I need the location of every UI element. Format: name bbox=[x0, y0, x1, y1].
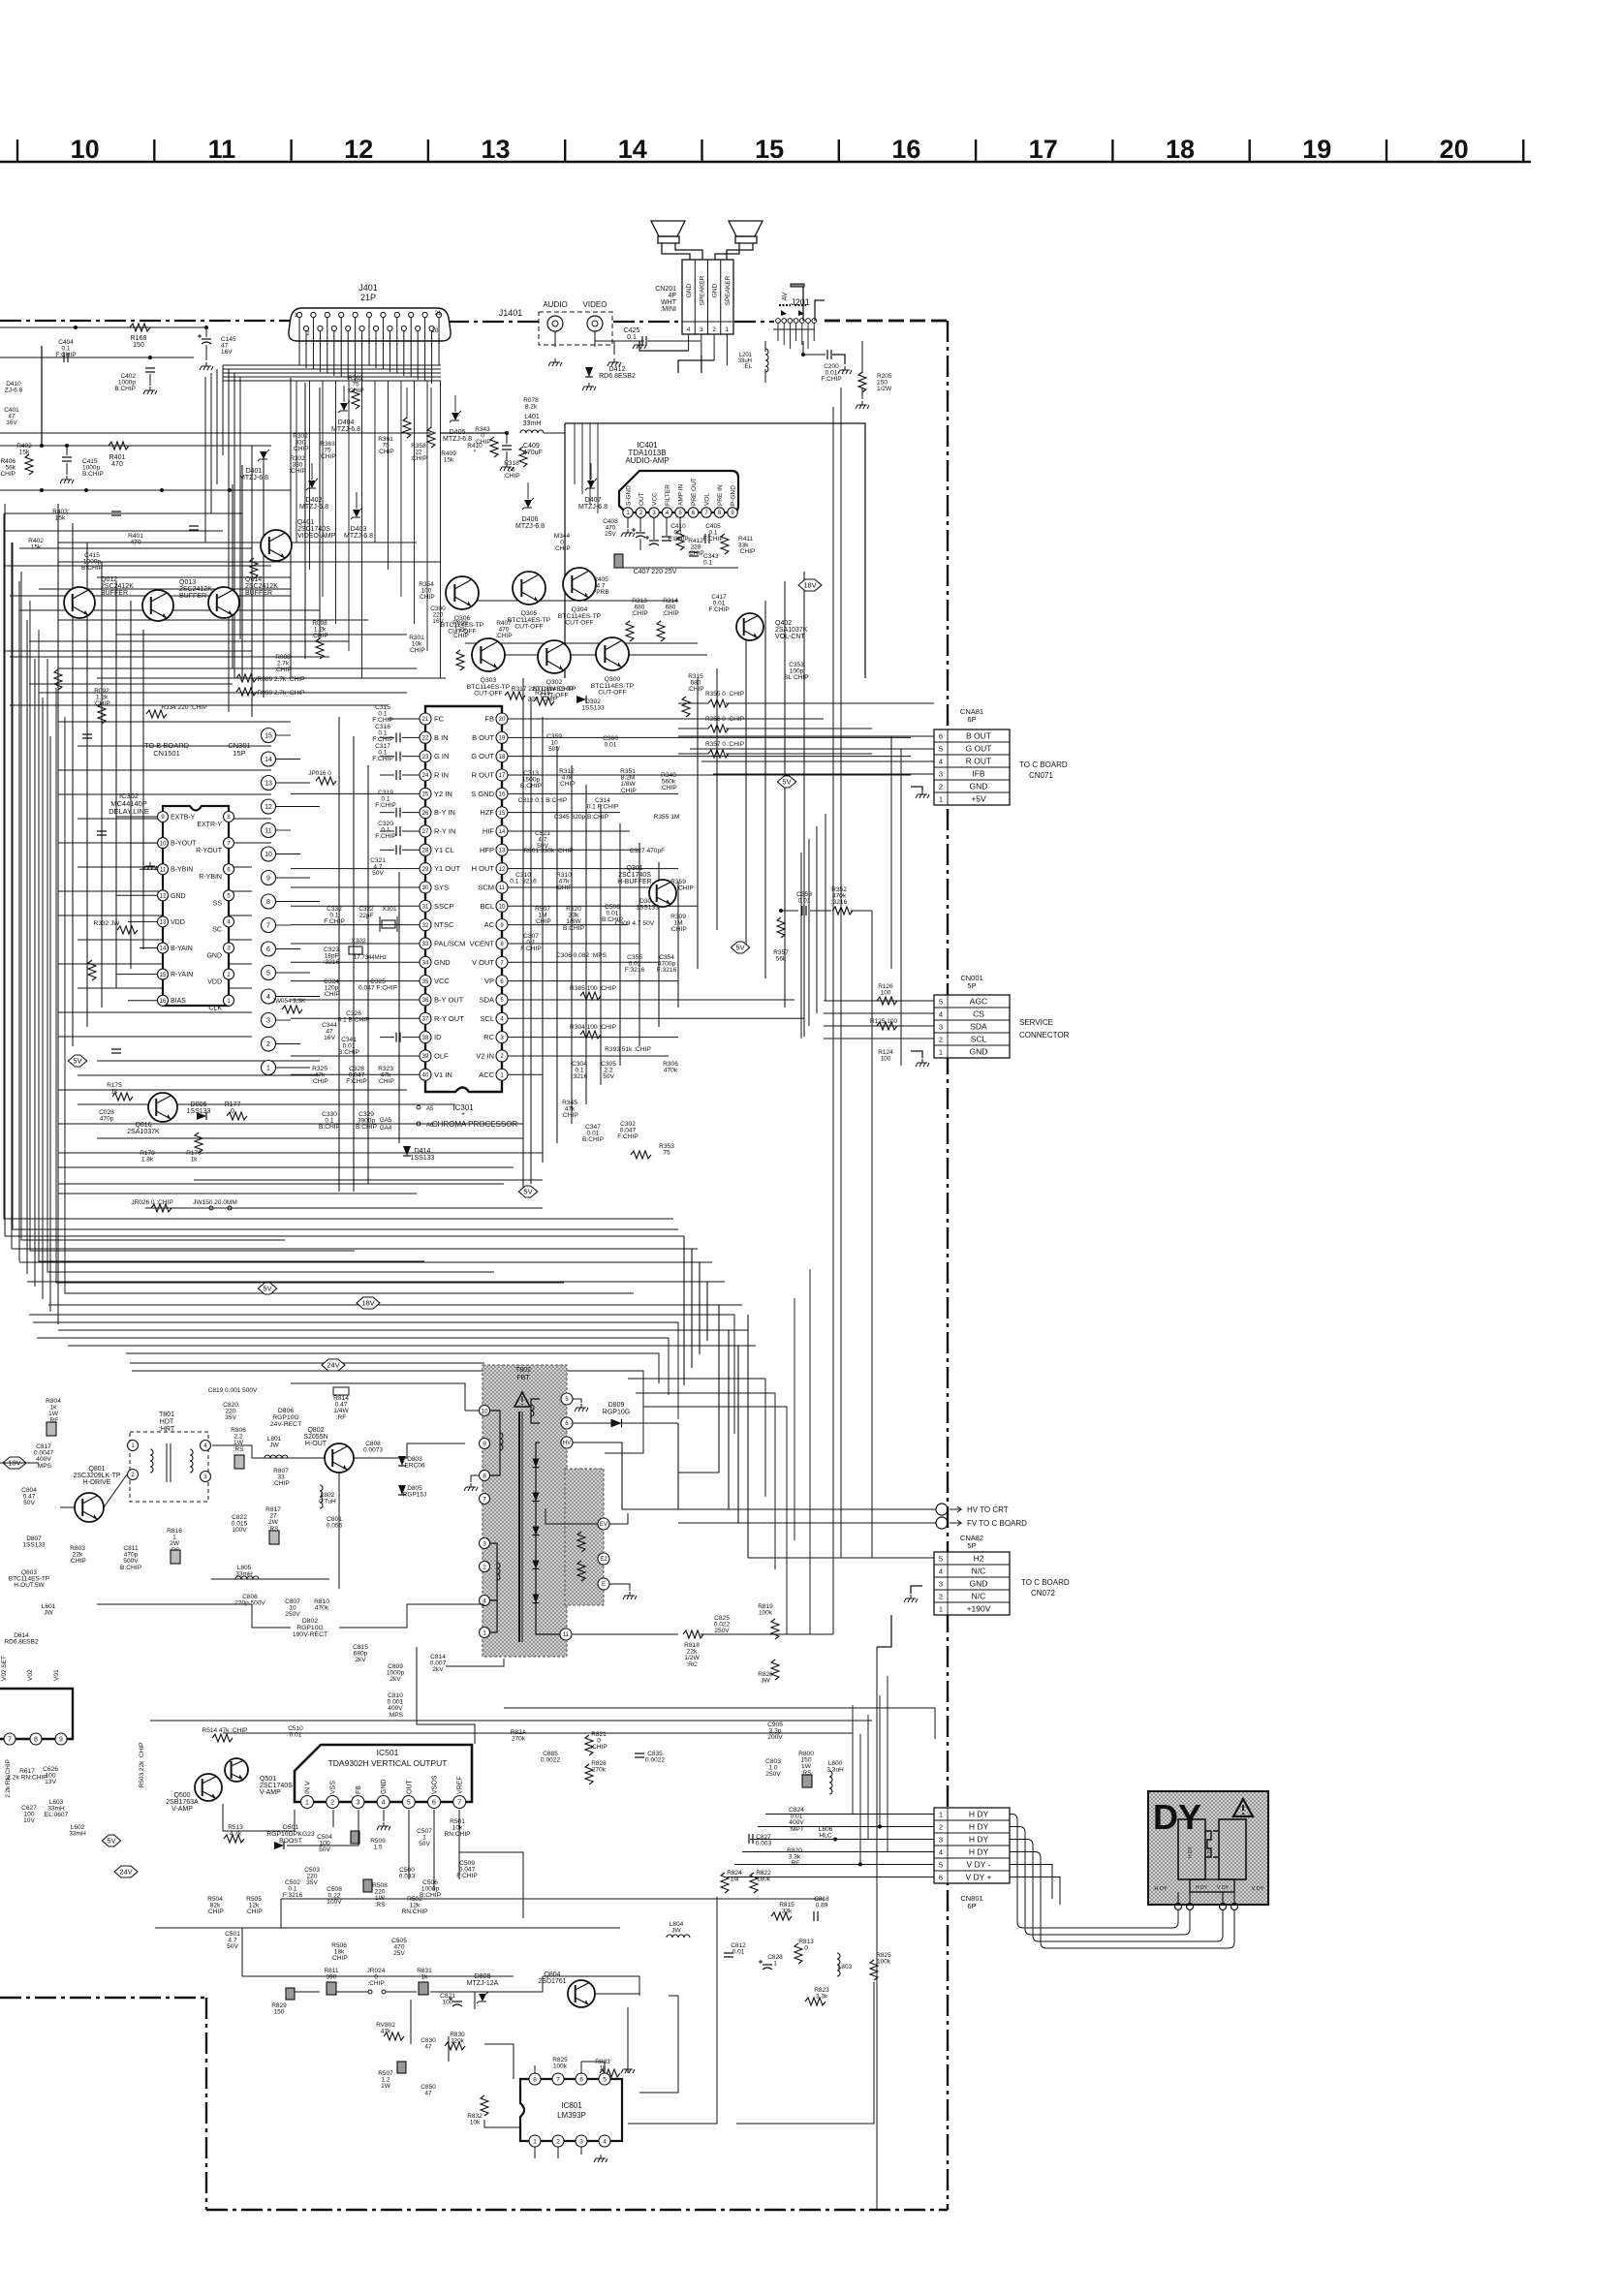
svg-text:14: 14 bbox=[265, 757, 272, 763]
transistor Q500 V-AMP bbox=[166, 1774, 222, 1813]
svg-text:2SC2412K: 2SC2412K bbox=[245, 583, 278, 590]
svg-text:18: 18 bbox=[1166, 135, 1195, 164]
svg-text:JW: JW bbox=[269, 1443, 279, 1449]
svg-text:RC: RC bbox=[483, 1033, 494, 1041]
svg-text:R393 51k :CHIP: R393 51k :CHIP bbox=[605, 1046, 651, 1053]
svg-text:G IN: G IN bbox=[434, 752, 449, 760]
svg-text::CHIP: :CHIP bbox=[311, 1078, 328, 1085]
transistor Q401 bbox=[261, 519, 336, 561]
svg-text:35V: 35V bbox=[225, 1414, 236, 1421]
svg-text:50V: 50V bbox=[319, 1846, 330, 1853]
wires IC301 right pin connections bbox=[508, 719, 911, 1074]
svg-text:VOL: VOL bbox=[704, 493, 711, 506]
transformer T802 flyback FBT bbox=[291, 1365, 637, 1657]
svg-text:AUDIO-AMP: AUDIO-AMP bbox=[625, 456, 669, 465]
svg-text:0.01: 0.01 bbox=[798, 898, 811, 905]
svg-text:33mH: 33mH bbox=[69, 1831, 86, 1838]
svg-text:100k: 100k bbox=[553, 2063, 568, 2070]
svg-text:R801 330k :CHIP: R801 330k :CHIP bbox=[523, 848, 574, 854]
deflection yoke DY block bbox=[1148, 1791, 1268, 1910]
svg-text:V DY: V DY bbox=[1252, 1886, 1264, 1892]
svg-text:6: 6 bbox=[266, 946, 270, 953]
svg-text:FILTER: FILTER bbox=[665, 484, 671, 506]
svg-text:R356 0 :CHIP: R356 0 :CHIP bbox=[705, 716, 744, 723]
parts top-left supply cluster bbox=[0, 324, 306, 492]
svg-text:9: 9 bbox=[266, 876, 270, 883]
svg-text:3: 3 bbox=[939, 1835, 943, 1844]
svg-text:16: 16 bbox=[891, 135, 920, 164]
svg-text:C322: C322 bbox=[358, 906, 374, 913]
svg-text:BIAS: BIAS bbox=[171, 998, 186, 1005]
svg-text:2SC1740S: 2SC1740S bbox=[618, 872, 651, 879]
board outline dash-dot top border bbox=[0, 321, 948, 322]
wires J401 fanout bbox=[205, 318, 441, 712]
svg-text:SDA: SDA bbox=[970, 1021, 987, 1031]
svg-text:IC801: IC801 bbox=[561, 2101, 582, 2110]
svg-text:0.033: 0.033 bbox=[399, 1874, 416, 1880]
svg-text:R304 100 :CHIP: R304 100 :CHIP bbox=[570, 1024, 617, 1031]
svg-text:0.047 F:CHIP: 0.047 F:CHIP bbox=[358, 985, 398, 992]
svg-text:D405: D405 bbox=[450, 429, 466, 436]
svg-text:G OUT: G OUT bbox=[471, 752, 494, 760]
svg-text::MPT: :MPT bbox=[789, 1826, 804, 1833]
svg-text:8: 8 bbox=[266, 899, 270, 906]
IC IC501 TDA9302H vertical output bbox=[295, 1745, 472, 1809]
svg-text::CHIP: :CHIP bbox=[323, 991, 340, 998]
svg-text:25V: 25V bbox=[605, 531, 616, 538]
parts bottom middle cluster bbox=[271, 1968, 620, 2126]
svg-text::CHIP: :CHIP bbox=[289, 468, 305, 475]
power tag 18V bbox=[798, 579, 822, 591]
svg-text:HV TO CRT: HV TO CRT bbox=[967, 1505, 1009, 1514]
svg-text:HV: HV bbox=[563, 1441, 571, 1446]
svg-text:1W: 1W bbox=[381, 2083, 391, 2090]
svg-text::CHIP: :CHIP bbox=[408, 647, 424, 654]
svg-text:34: 34 bbox=[422, 960, 429, 966]
svg-text:RGP15J: RGP15J bbox=[403, 1492, 427, 1499]
svg-text:11: 11 bbox=[160, 867, 167, 873]
svg-text:2: 2 bbox=[330, 1800, 334, 1807]
svg-text:24V-RECT: 24V-RECT bbox=[270, 1421, 301, 1428]
transistor Q303 BTC114ES-TP bbox=[467, 638, 511, 698]
svg-text:100: 100 bbox=[881, 1056, 891, 1063]
svg-text:B:CHIP: B:CHIP bbox=[563, 925, 585, 932]
svg-text:3: 3 bbox=[939, 1579, 943, 1588]
svg-text:SL:CHIP: SL:CHIP bbox=[784, 674, 808, 681]
svg-text:3: 3 bbox=[579, 2138, 583, 2145]
svg-text:11: 11 bbox=[265, 828, 271, 835]
svg-text:470k: 470k bbox=[315, 1605, 329, 1612]
transistor Q804 bbox=[538, 1971, 595, 2007]
svg-text:5: 5 bbox=[939, 997, 943, 1006]
svg-text:MTZJ-6.8: MTZJ-6.8 bbox=[344, 533, 373, 540]
svg-text:JW: JW bbox=[671, 1928, 681, 1935]
svg-text:TDA9302H VERTICAL OUTPUT: TDA9302H VERTICAL OUTPUT bbox=[328, 1758, 448, 1768]
svg-text:220p 500V: 220p 500V bbox=[234, 1600, 265, 1607]
svg-text:0.0022: 0.0022 bbox=[541, 1757, 560, 1764]
connector J401 21P bbox=[289, 283, 451, 341]
svg-text:VOL-CNT: VOL-CNT bbox=[775, 634, 805, 640]
transistor Q801 H-DRIVE bbox=[73, 1466, 120, 1522]
svg-text:AV: AV bbox=[782, 292, 789, 300]
svg-text:B:CHIP: B:CHIP bbox=[520, 783, 543, 790]
svg-text:100: 100 bbox=[881, 990, 891, 997]
svg-text:31: 31 bbox=[422, 904, 429, 910]
svg-text:B:CHIP: B:CHIP bbox=[338, 1049, 360, 1056]
svg-text:6: 6 bbox=[939, 731, 943, 740]
svg-text:C819 0.001 500V: C819 0.001 500V bbox=[208, 1387, 258, 1394]
svg-text:0.1 B:CHIP: 0.1 B:CHIP bbox=[338, 1017, 371, 1024]
svg-text:1: 1 bbox=[939, 794, 943, 803]
svg-text::CHIP: :CHIP bbox=[319, 453, 335, 460]
transistor Q306 BTC114ES-TP bbox=[441, 576, 484, 636]
svg-text:SPEAKER: SPEAKER bbox=[699, 275, 705, 305]
svg-text:C327 470pF: C327 470pF bbox=[630, 848, 665, 854]
svg-text:T801: T801 bbox=[159, 1412, 174, 1418]
svg-text:B-YAIN: B-YAIN bbox=[171, 946, 193, 952]
svg-text:12: 12 bbox=[344, 135, 373, 164]
svg-text:FB: FB bbox=[356, 1785, 362, 1794]
svg-text:BUFFER: BUFFER bbox=[245, 590, 272, 597]
svg-text::EL: :EL bbox=[743, 364, 753, 370]
svg-text:AGC: AGC bbox=[970, 996, 987, 1006]
svg-text:RN:CHIP: RN:CHIP bbox=[401, 1908, 428, 1915]
svg-text:F:CHIP: F:CHIP bbox=[821, 376, 841, 383]
svg-text:17: 17 bbox=[1029, 135, 1058, 164]
svg-text:H2: H2 bbox=[974, 1553, 984, 1563]
svg-text:25V: 25V bbox=[393, 1950, 405, 1957]
wire J401 drop verticals bbox=[296, 381, 441, 678]
svg-text:S-GND: S-GND bbox=[626, 485, 633, 506]
op-amp IC401 TDA1013B bbox=[619, 441, 738, 517]
svg-text:FV TO C BOARD: FV TO C BOARD bbox=[967, 1519, 1027, 1528]
svg-text::CHIP: :CHIP bbox=[377, 1078, 394, 1085]
node HV TO CRT bbox=[678, 1504, 1009, 1515]
svg-text::CHIP: :CHIP bbox=[553, 545, 570, 552]
svg-text:R334 220 :CHIP: R334 220 :CHIP bbox=[161, 704, 206, 711]
svg-text:4: 4 bbox=[266, 994, 270, 1001]
svg-text::RS: :RS bbox=[375, 1902, 387, 1908]
svg-text:L401: L401 bbox=[524, 414, 540, 420]
svg-text:V-AMP: V-AMP bbox=[171, 1806, 193, 1813]
svg-text::CHIP: :CHIP bbox=[555, 884, 573, 891]
svg-text::CHIP: :CHIP bbox=[292, 446, 308, 452]
svg-text:5V: 5V bbox=[523, 1188, 532, 1196]
svg-text:12: 12 bbox=[160, 893, 167, 899]
svg-text:CUT-OFF: CUT-OFF bbox=[448, 629, 476, 636]
svg-text:D403: D403 bbox=[351, 526, 367, 533]
svg-text:R-YBIN: R-YBIN bbox=[199, 874, 222, 881]
svg-text:CN201: CN201 bbox=[655, 286, 676, 293]
connector CN301 15P pin circles bbox=[144, 729, 320, 1075]
svg-text:VSS: VSS bbox=[330, 1781, 337, 1794]
transistor Q501 V-AMP bbox=[225, 1758, 293, 1796]
svg-text:HZF: HZF bbox=[480, 808, 494, 817]
svg-text:Q012: Q012 bbox=[101, 576, 117, 583]
svg-text:F:CHIP: F:CHIP bbox=[372, 756, 393, 762]
svg-text:100V: 100V bbox=[327, 1899, 342, 1906]
svg-text:RGP10GPKG23: RGP10GPKG23 bbox=[266, 1831, 315, 1838]
svg-text:5: 5 bbox=[266, 971, 270, 977]
svg-text:5: 5 bbox=[939, 744, 943, 753]
svg-text:RD6.8ESB2: RD6.8ESB2 bbox=[599, 373, 636, 380]
svg-text:15k: 15k bbox=[19, 450, 30, 456]
IC IC302 MC44140P delay line bbox=[109, 791, 234, 1012]
svg-text:1/2W: 1/2W bbox=[877, 386, 892, 392]
svg-text:+5V: +5V bbox=[971, 793, 986, 803]
transistor Q302 BTC114ES-TP bbox=[533, 640, 576, 699]
svg-text:17.7344MHz: 17.7344MHz bbox=[354, 955, 387, 961]
svg-text:16V: 16V bbox=[324, 1035, 335, 1041]
svg-text:2SC2412K: 2SC2412K bbox=[101, 583, 134, 590]
node FV TO C BOARD bbox=[678, 1517, 1027, 1529]
svg-text:11: 11 bbox=[499, 885, 506, 891]
svg-text:B:CHIP: B:CHIP bbox=[82, 471, 104, 478]
svg-text:SDA: SDA bbox=[480, 995, 494, 1004]
svg-text:BUFFER: BUFFER bbox=[179, 593, 206, 600]
svg-text:F:3216: F:3216 bbox=[657, 967, 677, 974]
svg-text:F:CHIP: F:CHIP bbox=[456, 1873, 478, 1879]
svg-text:15: 15 bbox=[160, 973, 167, 978]
svg-text:Q013: Q013 bbox=[179, 579, 196, 586]
transistor Q301 H-BUFFER bbox=[617, 865, 676, 907]
svg-text:470: 470 bbox=[130, 540, 140, 546]
parts chroma left cluster bbox=[272, 704, 435, 1162]
svg-text:JW054 3.3K: JW054 3.3K bbox=[272, 998, 306, 1005]
svg-text:H-OUT.5W: H-OUT.5W bbox=[14, 1582, 45, 1589]
svg-text:PRE IN: PRE IN bbox=[717, 484, 724, 506]
svg-text::CHIP: :CHIP bbox=[558, 781, 576, 788]
svg-text:11: 11 bbox=[208, 135, 236, 164]
svg-text:B:CHIP: B:CHIP bbox=[81, 565, 104, 572]
svg-text::3216: :3216 bbox=[572, 1073, 588, 1080]
svg-text:14: 14 bbox=[499, 829, 506, 835]
svg-text:R-YOUT: R-YOUT bbox=[196, 848, 223, 854]
svg-text:GND: GND bbox=[171, 893, 186, 900]
svg-text:3.3k: 3.3k bbox=[816, 1994, 828, 2001]
svg-text:B-Y IN: B-Y IN bbox=[434, 808, 455, 817]
svg-text:Q401: Q401 bbox=[297, 519, 314, 526]
svg-text::CHIP: :CHIP bbox=[330, 1955, 348, 1962]
svg-text::MPS: :MPS bbox=[388, 1712, 404, 1719]
svg-text:35: 35 bbox=[422, 979, 429, 985]
svg-text::CHIP: :CHIP bbox=[631, 610, 647, 617]
svg-text::CHIP: :CHIP bbox=[206, 1908, 224, 1915]
svg-text:BUFFER: BUFFER bbox=[101, 590, 128, 597]
svg-text:5V: 5V bbox=[73, 1057, 81, 1066]
svg-text:CUT-OFF: CUT-OFF bbox=[565, 620, 593, 627]
svg-text:IFB: IFB bbox=[972, 768, 985, 778]
parts top band extra components bbox=[28, 509, 258, 1053]
svg-text::CHIP: :CHIP bbox=[662, 610, 678, 617]
wire chroma mesh verticals bbox=[58, 378, 804, 1192]
svg-text:4.7k: 4.7k bbox=[230, 1831, 242, 1838]
svg-text:B:CHIP: B:CHIP bbox=[356, 1124, 378, 1131]
svg-text:1k: 1k bbox=[191, 1157, 199, 1164]
svg-text:5: 5 bbox=[407, 1800, 411, 1807]
svg-text:HLC: HLC bbox=[819, 1833, 831, 1840]
svg-text:14: 14 bbox=[618, 135, 647, 164]
svg-text:7: 7 bbox=[457, 1800, 461, 1807]
svg-text:0: 0 bbox=[804, 1945, 808, 1952]
svg-text:0: 0 bbox=[231, 1108, 234, 1115]
svg-text:2: 2 bbox=[266, 1041, 270, 1048]
connector CNA81 6P bbox=[934, 707, 1068, 805]
svg-text:GND: GND bbox=[970, 1046, 988, 1056]
transformer T801 HDT bbox=[128, 1412, 211, 1502]
svg-text:2: 2 bbox=[939, 1035, 943, 1043]
svg-text:C312 0.1 B:CHIP: C312 0.1 B:CHIP bbox=[518, 797, 568, 804]
svg-text:VCC: VCC bbox=[652, 492, 659, 506]
svg-text:50V: 50V bbox=[372, 870, 384, 877]
svg-text:B:CHIP: B:CHIP bbox=[114, 386, 136, 392]
svg-text:B:CHIP: B:CHIP bbox=[120, 1565, 142, 1571]
svg-text:10: 10 bbox=[160, 841, 167, 847]
wire right-side vertical bundle bbox=[678, 1236, 936, 1558]
svg-text:2SC2412K: 2SC2412K bbox=[179, 586, 212, 593]
transistor Q305 BTC114ES-TP bbox=[508, 572, 551, 631]
svg-text:Q301: Q301 bbox=[626, 865, 642, 872]
svg-text:HFP: HFP bbox=[480, 846, 494, 854]
svg-text:RGP10G: RGP10G bbox=[296, 1625, 324, 1631]
svg-text:11: 11 bbox=[563, 1632, 570, 1638]
svg-text:V-AMP: V-AMP bbox=[260, 1789, 281, 1796]
svg-text:VIDEO: VIDEO bbox=[583, 300, 607, 309]
svg-text:R OUT: R OUT bbox=[966, 756, 991, 765]
svg-text:H-BUFFER: H-BUFFER bbox=[617, 879, 651, 885]
svg-text:IN V: IN V bbox=[305, 1781, 312, 1794]
svg-text:VDD: VDD bbox=[171, 919, 185, 926]
svg-text:C425: C425 bbox=[624, 327, 640, 334]
connector CNA82 5P bbox=[872, 1534, 1070, 1647]
svg-text:CUT-OFF: CUT-OFF bbox=[598, 690, 626, 697]
svg-text:Y1 OUT: Y1 OUT bbox=[434, 864, 461, 873]
svg-text:50V: 50V bbox=[227, 1943, 238, 1950]
svg-text:0.1 :3216: 0.1 :3216 bbox=[510, 879, 537, 885]
svg-text:250V: 250V bbox=[765, 1771, 781, 1778]
svg-text:5: 5 bbox=[939, 1554, 943, 1563]
svg-text:OUT: OUT bbox=[406, 1780, 413, 1795]
wire mid band extra buses bbox=[29, 1219, 810, 1634]
svg-text:1.8k: 1.8k bbox=[141, 1157, 154, 1164]
svg-text:2SA1037K: 2SA1037K bbox=[127, 1129, 160, 1135]
svg-text:39: 39 bbox=[422, 1054, 429, 1060]
svg-text::CHIP: :CHIP bbox=[410, 455, 426, 462]
svg-text:V DY -: V DY - bbox=[967, 1859, 991, 1869]
svg-text::MPS: :MPS bbox=[36, 1463, 52, 1470]
svg-text:18V: 18V bbox=[803, 581, 816, 590]
svg-text:V DY: V DY bbox=[1207, 1846, 1213, 1858]
svg-text:150: 150 bbox=[274, 2009, 285, 2016]
svg-text:2kV: 2kV bbox=[355, 1657, 366, 1663]
svg-text:29: 29 bbox=[422, 867, 429, 873]
svg-text:GND: GND bbox=[381, 1779, 388, 1794]
svg-text:WHT: WHT bbox=[661, 299, 677, 306]
svg-text:F:CHIP: F:CHIP bbox=[55, 352, 76, 358]
svg-text:1.5: 1.5 bbox=[373, 1845, 382, 1851]
svg-text:23: 23 bbox=[422, 755, 429, 760]
wire audio box verticals bbox=[575, 423, 598, 513]
svg-text::CHIP: :CHIP bbox=[69, 1558, 86, 1565]
wire long right verticals bbox=[801, 388, 901, 2210]
svg-text:HIF: HIF bbox=[483, 826, 495, 835]
svg-text:26: 26 bbox=[422, 811, 429, 817]
svg-text:3: 3 bbox=[266, 1018, 270, 1025]
svg-text:0.01: 0.01 bbox=[732, 1949, 745, 1956]
svg-text:C345 820p B:CHIP: C345 820p B:CHIP bbox=[554, 814, 609, 821]
svg-text:Q802: Q802 bbox=[307, 1427, 324, 1434]
svg-text:0.01: 0.01 bbox=[290, 1732, 302, 1739]
svg-text:Q801: Q801 bbox=[88, 1466, 105, 1473]
svg-text::CHIP: :CHIP bbox=[534, 918, 551, 925]
svg-text:F:CHIP: F:CHIP bbox=[708, 606, 729, 613]
svg-text:Q402: Q402 bbox=[775, 620, 792, 627]
svg-text:2.2k RN:CHIP: 2.2k RN:CHIP bbox=[7, 1775, 47, 1782]
svg-text:VP: VP bbox=[484, 977, 494, 985]
svg-text::MINI: :MINI bbox=[660, 306, 676, 313]
svg-text:1: 1 bbox=[533, 2138, 537, 2145]
svg-text:5V: 5V bbox=[735, 944, 744, 952]
svg-text::CHIP: :CHIP bbox=[311, 633, 327, 639]
svg-text:AC: AC bbox=[484, 920, 495, 929]
svg-text:2kV: 2kV bbox=[432, 1666, 444, 1673]
svg-text:R401: R401 bbox=[109, 454, 126, 461]
svg-text:1SS133: 1SS133 bbox=[411, 1155, 435, 1162]
parts buffer resistor cluster bbox=[93, 581, 512, 724]
svg-text:2: 2 bbox=[483, 1564, 486, 1570]
svg-text:D802: D802 bbox=[302, 1618, 318, 1625]
IC bottom-left fragment bbox=[0, 1656, 86, 1838]
svg-text:50V: 50V bbox=[603, 1073, 614, 1080]
svg-text::CHIP: :CHIP bbox=[687, 686, 703, 693]
svg-text:F:CHIP: F:CHIP bbox=[346, 1078, 367, 1085]
svg-text:7: 7 bbox=[556, 2076, 560, 2083]
parts chroma right cluster bbox=[510, 690, 694, 1159]
svg-text:4: 4 bbox=[382, 1800, 386, 1807]
svg-text:1k: 1k bbox=[421, 1974, 429, 1981]
svg-text:CONNECTOR: CONNECTOR bbox=[1019, 1031, 1070, 1039]
svg-text:JW: JW bbox=[44, 1610, 53, 1617]
connector CN801 6P bbox=[934, 1808, 1010, 1910]
svg-text:250V: 250V bbox=[285, 1611, 300, 1618]
svg-text:MTZJ-6.8: MTZJ-6.8 bbox=[299, 504, 328, 511]
svg-text:4: 4 bbox=[939, 1567, 943, 1575]
svg-text:2SC1740S: 2SC1740S bbox=[297, 526, 330, 533]
svg-text:B-YBIN: B-YBIN bbox=[171, 867, 193, 874]
svg-text:R-Y OUT: R-Y OUT bbox=[434, 1014, 464, 1023]
svg-text:8: 8 bbox=[34, 1737, 38, 1744]
svg-text:3: 3 bbox=[939, 769, 943, 778]
parts C358 R352 cluster bbox=[773, 886, 872, 1558]
svg-text:8.2k: 8.2k bbox=[525, 404, 538, 411]
svg-text:S GND: S GND bbox=[471, 790, 494, 798]
svg-text:J401: J401 bbox=[358, 283, 378, 293]
svg-text:GA4: GA4 bbox=[380, 1125, 392, 1132]
parts vertical output cluster bbox=[139, 1725, 478, 1962]
svg-text:10V: 10V bbox=[23, 1817, 35, 1824]
svg-text:1M: 1M bbox=[730, 1877, 738, 1883]
jack J201 bbox=[773, 284, 817, 349]
parts zener cluster D402-D407 bbox=[16, 375, 607, 552]
svg-text:5V: 5V bbox=[782, 778, 791, 787]
svg-text:0.003: 0.003 bbox=[756, 1841, 772, 1847]
svg-text:0.0022: 0.0022 bbox=[645, 1757, 665, 1764]
svg-text:D401: D401 bbox=[246, 468, 263, 475]
svg-text:R168: R168 bbox=[131, 335, 147, 342]
svg-text:JW: JW bbox=[761, 1678, 770, 1685]
svg-text:CHROMA PROCESSOR: CHROMA PROCESSOR bbox=[432, 1120, 518, 1129]
svg-text:V DY +: V DY + bbox=[965, 1872, 991, 1881]
